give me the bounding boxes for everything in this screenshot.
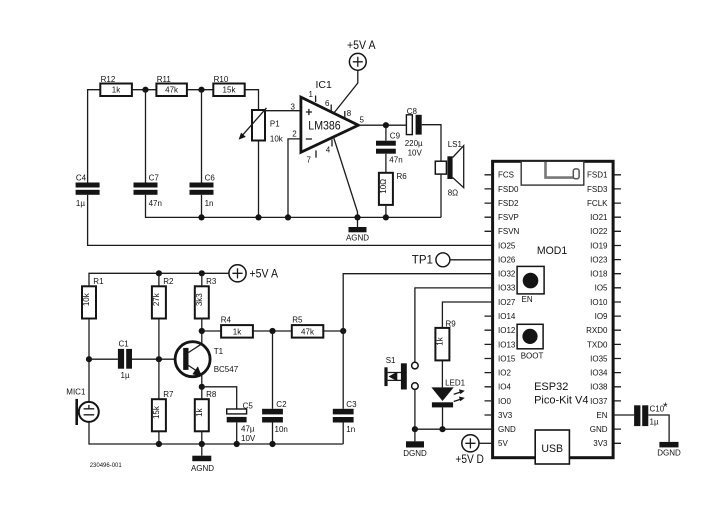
wire C3 bottom to ground rail [342, 423, 344, 445]
svg-text:1µ: 1µ [76, 199, 85, 208]
svg-text:47n: 47n [389, 155, 402, 164]
svg-text:C5: C5 [243, 402, 254, 411]
svg-text:47µ: 47µ [241, 425, 255, 434]
junction R7 on ground rail [156, 441, 162, 447]
svg-text:R5: R5 [292, 316, 303, 325]
module pin labels right [586, 171, 608, 449]
svg-text:IO5: IO5 [595, 284, 608, 293]
wire C10 to DGND [648, 415, 669, 442]
svg-text:DGND: DGND [403, 449, 427, 458]
svg-text:IO21: IO21 [590, 213, 608, 222]
wire C7 top feed [145, 90, 147, 183]
wire C3 top feed from IO32 [342, 331, 344, 409]
svg-text:10V: 10V [408, 148, 423, 157]
svg-text:C6: C6 [205, 173, 216, 182]
wire C4 bottom to IO25 long wire [88, 195, 493, 246]
junction mic node [86, 356, 92, 362]
capacitor C1 [118, 339, 132, 380]
junction C3 top node [340, 328, 346, 334]
wire C5 bottom [236, 422, 238, 444]
wire LED1 cathode to ground rail [442, 407, 444, 429]
svg-text:IO19: IO19 [590, 241, 608, 250]
svg-text:47n: 47n [149, 199, 162, 208]
module pin labels left [498, 171, 520, 449]
svg-text:8Ω: 8Ω [448, 188, 458, 197]
capacitor C3 [333, 400, 357, 434]
wire T1 collector to R3 node [201, 331, 203, 344]
svg-text:10k: 10k [270, 135, 284, 144]
svg-text:IO13: IO13 [498, 340, 516, 349]
svg-text:IO38: IO38 [590, 383, 608, 392]
wire R7 bottom [158, 431, 160, 444]
supply +5V D [455, 435, 484, 467]
svg-text:ESP32: ESP32 [534, 381, 568, 393]
resistor R6 [379, 172, 407, 205]
svg-text:230496-001: 230496-001 [90, 463, 123, 469]
svg-text:6: 6 [325, 99, 330, 108]
junction R3 top [199, 270, 205, 276]
svg-text:R1: R1 [93, 277, 104, 286]
junction AGND node [354, 214, 360, 220]
svg-text:C2: C2 [276, 400, 287, 409]
svg-text:2: 2 [292, 130, 297, 139]
svg-text:TXD0: TXD0 [587, 340, 608, 349]
svg-text:FSD2: FSD2 [498, 199, 519, 208]
wire TP1 to IO26 [450, 259, 493, 261]
svg-text:47k: 47k [165, 86, 179, 95]
svg-text:R7: R7 [163, 390, 174, 399]
wire P1 bottom to AGND rail [258, 141, 260, 218]
wire R9 to LED1 [441, 360, 443, 387]
test point TP1 [412, 253, 450, 267]
wire IO27 to R9 [442, 302, 492, 328]
antenna symbol [521, 161, 584, 185]
junction pin2 on AGND rail [285, 214, 291, 220]
pin 1 tick [315, 96, 317, 103]
wire pin 2 to ground [288, 139, 301, 218]
svg-text:AGND: AGND [191, 464, 214, 473]
svg-text:GND: GND [590, 425, 608, 434]
svg-text:AGND: AGND [346, 233, 369, 242]
wire mic node to C1 [89, 358, 118, 360]
junction output node [383, 122, 389, 128]
ground AGND (amp) [346, 217, 369, 242]
junction base node [156, 356, 162, 362]
wire R5 to C3 node [323, 330, 343, 332]
svg-text:IO27: IO27 [498, 298, 516, 307]
resistor R4 [221, 316, 253, 338]
wire R2 top feed [158, 273, 160, 286]
svg-text:IO32: IO32 [498, 270, 516, 279]
svg-text:R8: R8 [206, 390, 217, 399]
svg-text:BOOT: BOOT [521, 351, 544, 360]
svg-text:1n: 1n [346, 425, 355, 434]
pin 7 tick [315, 150, 317, 157]
svg-text:GND: GND [498, 425, 516, 434]
wire C2 top feed [272, 331, 274, 409]
pushbutton BOOT [517, 324, 543, 360]
ground DGND (switch) [403, 429, 427, 458]
wire IO32 to R5/C3 node [343, 274, 492, 331]
potentiometer P1 [239, 108, 284, 144]
capacitor C10 [634, 400, 668, 426]
svg-text:FSD1: FSD1 [587, 171, 608, 180]
capacitor C6 [190, 173, 216, 208]
junction LED on ground rail [439, 426, 445, 432]
svg-text:IO18: IO18 [590, 270, 608, 279]
svg-text:220µ: 220µ [405, 139, 423, 148]
capacitor C7 [134, 173, 162, 208]
wire C6 top feed [201, 90, 203, 183]
svg-text:LS1: LS1 [448, 140, 463, 149]
loudspeaker LS1 [435, 140, 463, 197]
junction collector node [199, 328, 205, 334]
supply +5V A (top) [347, 40, 376, 70]
resistor R9 [435, 319, 456, 360]
svg-text:LM386: LM386 [308, 120, 340, 132]
svg-text:FCS: FCS [498, 171, 514, 180]
LED LED1 [431, 379, 465, 408]
svg-text:IO4: IO4 [498, 383, 511, 392]
capacitor C5 electrolytic [227, 402, 256, 443]
ground AGND (preamp) [191, 444, 214, 473]
wire IO33 to S1 [415, 288, 493, 362]
wire EN pin to C10 [613, 414, 634, 416]
svg-text:BC547: BC547 [214, 365, 239, 374]
USB connector [535, 430, 569, 464]
svg-text:1k: 1k [435, 336, 444, 345]
wire collector node to R4 [202, 330, 221, 332]
transistor T1 [175, 342, 239, 377]
svg-text:Pico-Kit V4: Pico-Kit V4 [534, 394, 588, 406]
wire C2 bottom [272, 423, 274, 445]
svg-text:10n: 10n [275, 425, 288, 434]
svg-text:1k: 1k [112, 86, 121, 95]
resistor R12 [100, 75, 132, 96]
svg-text:IO22: IO22 [590, 227, 608, 236]
svg-text:R12: R12 [101, 75, 116, 84]
wire R10 to P1 top [245, 90, 259, 110]
svg-text:3V3: 3V3 [593, 439, 608, 448]
svg-text:3V3: 3V3 [498, 411, 513, 420]
svg-text:IO37: IO37 [590, 397, 608, 406]
svg-text:FSVN: FSVN [498, 227, 520, 236]
svg-text:RXD0: RXD0 [586, 326, 608, 335]
wire R1 bottom to MIC1 [88, 319, 90, 402]
svg-text:LED1: LED1 [445, 379, 466, 388]
svg-text:10Ω: 10Ω [379, 179, 388, 194]
svg-text:1k: 1k [195, 407, 204, 416]
junction node C7 top [142, 87, 148, 93]
svg-text:R11: R11 [157, 75, 172, 84]
svg-text:MOD1: MOD1 [537, 245, 567, 257]
svg-text:5: 5 [360, 116, 365, 125]
svg-text:27k: 27k [152, 292, 161, 306]
wire pin 4 to AGND [334, 137, 358, 217]
capacitor C2 [262, 400, 288, 434]
svg-text:10V: 10V [241, 434, 256, 443]
resistor R10 [213, 75, 244, 96]
svg-text:IO35: IO35 [590, 354, 608, 363]
module pin stubs right [614, 175, 621, 444]
wire R12 left feed from C4 [88, 90, 101, 183]
svg-text:R4: R4 [221, 316, 232, 325]
wire R8 bottom [201, 431, 203, 444]
svg-text:C4: C4 [76, 173, 87, 182]
junction C5 on ground rail [234, 441, 240, 447]
svg-text:IO26: IO26 [498, 256, 516, 265]
junction R6 on AGND rail [383, 214, 389, 220]
wire R12 to R11 [132, 89, 157, 91]
junction S1 on ground rail [412, 426, 418, 432]
svg-text:10k: 10k [82, 292, 91, 306]
junction P1 on AGND rail [255, 214, 261, 220]
svg-text:4: 4 [326, 146, 331, 155]
svg-text:R10: R10 [214, 75, 229, 84]
wire R11 to R10 [187, 89, 213, 91]
svg-text:15k: 15k [223, 86, 237, 95]
svg-text:IO23: IO23 [590, 256, 608, 265]
wire C9 to R6 [385, 154, 387, 173]
svg-text:IO0: IO0 [498, 397, 511, 406]
wire R3 top feed [201, 273, 203, 286]
svg-text:DGND: DGND [657, 448, 681, 457]
svg-text:47k: 47k [301, 327, 315, 336]
wire MIC1 bottom to ground rail [89, 422, 343, 444]
svg-text:15k: 15k [152, 405, 161, 419]
svg-text:C1: C1 [119, 339, 130, 348]
svg-text:R9: R9 [446, 319, 457, 328]
svg-text:*: * [663, 400, 668, 414]
resistor R11 [156, 75, 187, 96]
wire C8 to LS1 [422, 125, 441, 162]
svg-text:IO2: IO2 [498, 369, 511, 378]
wire P1 wiper to pin 3 [265, 110, 301, 112]
svg-text:IO9: IO9 [595, 312, 608, 321]
svg-text:USB: USB [541, 443, 563, 455]
svg-text:FSD0: FSD0 [498, 185, 519, 194]
wire pin 5 output [358, 124, 406, 126]
svg-text:P1: P1 [270, 120, 280, 129]
svg-text:IO10: IO10 [590, 298, 608, 307]
svg-text:IO14: IO14 [498, 312, 516, 321]
supply +5V A (preamp) [229, 265, 278, 282]
svg-text:EN: EN [596, 411, 607, 420]
svg-text:1µ: 1µ [121, 371, 130, 380]
svg-text:+5V A: +5V A [347, 40, 376, 52]
svg-text:EN: EN [522, 295, 533, 304]
wire S1 bottom to ground rail [414, 389, 416, 429]
svg-text:C9: C9 [390, 131, 401, 140]
wire C7 bottom to AGND rail [146, 195, 442, 218]
svg-text:8: 8 [347, 109, 352, 118]
svg-text:FCLK: FCLK [587, 199, 608, 208]
svg-text:FSVP: FSVP [498, 213, 519, 222]
junction R2 top [156, 270, 162, 276]
resistor R1 [82, 277, 104, 318]
module pin stubs left [485, 175, 492, 415]
wire pin 6 to +5V A [334, 70, 358, 113]
junction C2 top [269, 328, 275, 334]
svg-text:7: 7 [307, 156, 312, 165]
wire +5V D to 5V pin [479, 442, 493, 444]
svg-text:1µ: 1µ [650, 417, 659, 426]
op-amp IC1 LM386 [291, 79, 365, 165]
wire R3 bottom [201, 319, 203, 332]
junction R8 on ground rail [199, 441, 205, 447]
svg-text:FSD3: FSD3 [587, 185, 608, 194]
svg-text:C8: C8 [407, 107, 418, 116]
svg-text:1: 1 [309, 90, 314, 99]
svg-text:C3: C3 [346, 400, 357, 409]
pin 6 tick [330, 105, 332, 112]
svg-text:R3: R3 [206, 277, 217, 286]
wire +5VA rail (preamp) [89, 273, 229, 286]
svg-text:R6: R6 [397, 172, 408, 181]
svg-text:S1: S1 [386, 356, 396, 365]
svg-text:IO33: IO33 [498, 284, 516, 293]
resistor R3 [195, 277, 217, 318]
svg-text:5V: 5V [498, 439, 508, 448]
svg-text:IO12: IO12 [498, 326, 516, 335]
wire C6 bottom [201, 195, 203, 218]
junction emitter node [199, 384, 205, 390]
wire R6 bottom [385, 205, 387, 218]
resistor R7 [152, 390, 174, 431]
svg-text:3k3: 3k3 [195, 293, 204, 306]
svg-text:R2: R2 [163, 277, 174, 286]
resistor R8 [195, 390, 217, 431]
svg-text:+5V A: +5V A [250, 269, 279, 281]
svg-text:C7: C7 [149, 173, 160, 182]
svg-text:IO15: IO15 [498, 354, 516, 363]
wire base node to R7 [158, 359, 160, 399]
microphone MIC1 [66, 388, 99, 425]
wire C1 to T1 base [132, 358, 175, 360]
svg-text:IO25: IO25 [498, 241, 516, 250]
svg-text:MIC1: MIC1 [66, 388, 86, 397]
wire emitter node to C5 [202, 387, 237, 409]
pin 8 tick [344, 111, 346, 118]
ground DGND (C10) [657, 442, 681, 458]
wire LS1 bottom to AGND rail [440, 174, 442, 217]
switch S1 [384, 356, 418, 390]
resistor R5 [292, 316, 324, 338]
svg-text:+5V D: +5V D [455, 454, 484, 466]
wire R4 to R5 [253, 330, 292, 332]
resistor R2 [152, 277, 174, 318]
capacitor C8 electrolytic [405, 107, 423, 157]
capacitor C9 [376, 131, 403, 164]
module MOD1 ESP32 Pico-Kit V4 outline [493, 161, 613, 457]
pushbutton EN [517, 266, 544, 304]
wire output to C9 [385, 125, 387, 141]
svg-text:1k: 1k [233, 327, 242, 336]
svg-text:3: 3 [291, 103, 296, 112]
wire T1 emitter to R8 [201, 374, 203, 399]
wire R2 bottom to base node [158, 319, 160, 360]
svg-text:1n: 1n [205, 199, 214, 208]
junction node C6 top [198, 87, 204, 93]
pin 4 tick [331, 140, 333, 147]
capacitor C4 [76, 173, 100, 208]
junction C6 on AGND rail [198, 214, 204, 220]
wire digital ground rail to GND pin [415, 428, 493, 430]
svg-text:IC1: IC1 [316, 79, 333, 91]
svg-text:IO34: IO34 [590, 369, 608, 378]
svg-text:TP1: TP1 [412, 255, 433, 267]
junction C2 on ground rail [269, 441, 275, 447]
svg-text:T1: T1 [214, 347, 224, 356]
